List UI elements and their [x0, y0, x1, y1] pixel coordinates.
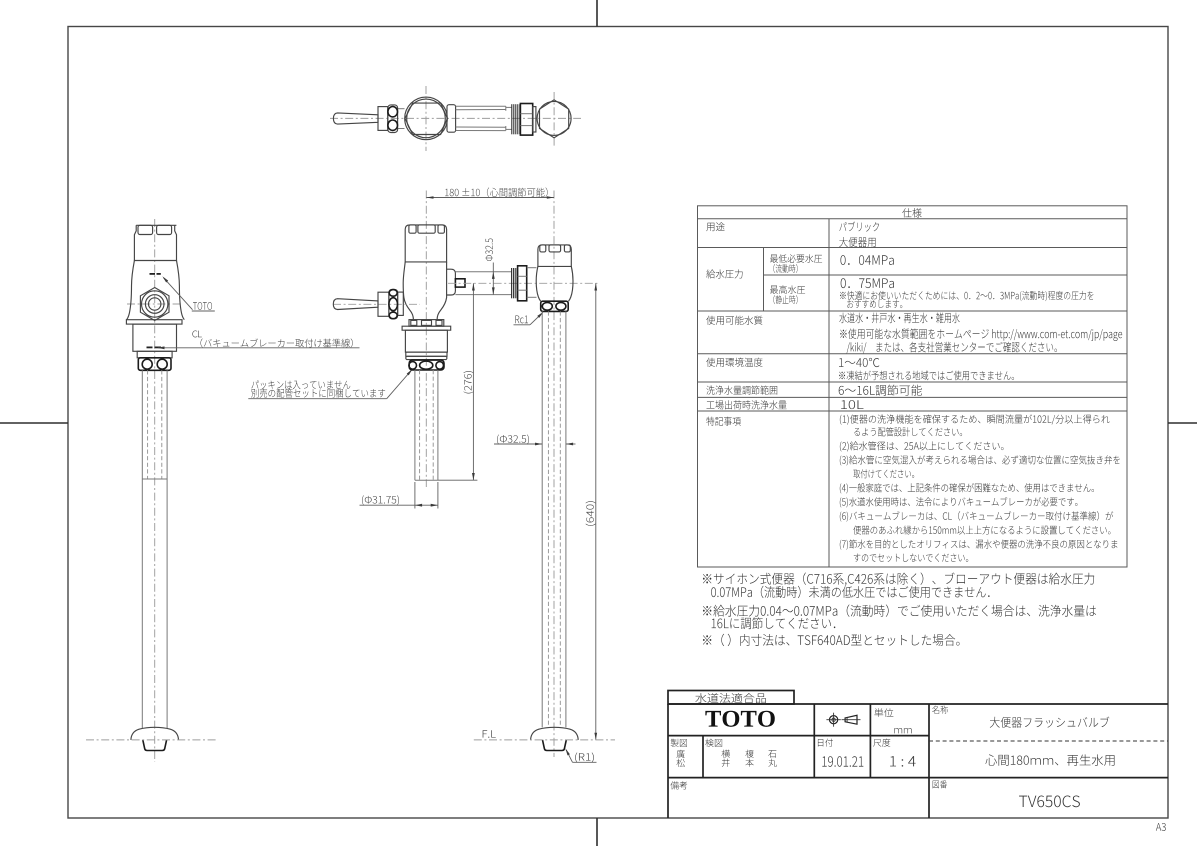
top view: union nut — [520, 104, 532, 136]
table label 洗浄水量調節範囲 — [706, 386, 777, 395]
table value 水質 — [839, 313, 959, 324]
left view: port circle outer — [142, 291, 168, 317]
middle view: inlet body — [536, 266, 573, 301]
top view: inlet hex — [540, 100, 569, 138]
middle view: vb bottom band — [406, 352, 447, 356]
dimension (640) line — [595, 283, 597, 740]
title block: row line 1 left — [668, 735, 929, 737]
left view: base spigot below floor — [143, 740, 167, 751]
centering tick bottom — [596, 818, 598, 846]
table value 大便器用 — [839, 237, 875, 247]
label vacuum breaker reference line — [200, 338, 352, 347]
middle view: wide flange — [402, 326, 451, 330]
sheet size A3 — [1156, 823, 1166, 831]
dimension (φ31.75) line — [360, 504, 438, 506]
dimension (φ32.5)2 text — [497, 435, 529, 445]
left view: pipe hidden line right — [161, 370, 163, 479]
table value 0.04MPa — [840, 255, 893, 265]
table value 水量範囲 — [839, 385, 922, 396]
top view: union collar — [533, 107, 536, 132]
middle view: vacuum breaker body — [405, 330, 447, 352]
spec note line 6 — [840, 483, 1094, 493]
spec note line 8 — [840, 511, 1113, 522]
spec note line 7 — [840, 497, 1078, 507]
middle view: outlet pipe centerline — [448, 282, 600, 284]
spec table: subrow line — [764, 274, 1128, 276]
left view: CL leader arrow — [157, 346, 164, 349]
title block: date — [822, 756, 863, 767]
dimension (φ31.75) arrows — [415, 504, 422, 507]
middle view: union nut — [409, 360, 444, 370]
middle view: outlet pipe top line — [455, 271, 511, 273]
spec table: outer frame — [698, 206, 1128, 567]
left view: cap segment left — [138, 225, 153, 234]
middle view: tail pipe wall right — [437, 370, 439, 480]
middle view: pivot-body plate — [398, 292, 404, 315]
dimension (276) line — [472, 283, 474, 480]
top view: inlet fitting circle — [537, 101, 571, 135]
title block: row line 2 — [668, 777, 1168, 779]
table label 使用可能水質 — [706, 316, 762, 325]
title block: drawing number — [1019, 796, 1080, 808]
middle view: tail pipe wall left — [414, 370, 416, 480]
label (R1) underline+leader — [573, 761, 597, 763]
table label 給水圧力 — [706, 269, 742, 278]
spec note line 5 — [853, 469, 914, 478]
projection symbol cone — [845, 715, 857, 724]
top view: union thread — [511, 104, 513, 134]
title block: approval tab text — [695, 693, 766, 703]
middle view: inlet bottom nut — [541, 301, 569, 311]
dimension (276) extension — [438, 479, 478, 481]
table label 用途 — [706, 222, 724, 231]
middle view: pivot ellipse mid — [389, 298, 398, 311]
title block: value mm — [894, 728, 911, 733]
middle view: adjuster screw box — [455, 279, 465, 287]
table label 使用環境温度 — [706, 358, 762, 367]
note packing line1 — [251, 381, 350, 390]
spec note line 3 — [840, 441, 1004, 451]
middle view: union nut (pipe) — [518, 266, 527, 301]
middle view: spud tabs — [411, 320, 417, 325]
projection symbol circle — [830, 716, 838, 724]
middle view: base flange — [531, 727, 579, 740]
title block: label 単位 — [874, 708, 893, 717]
left view: port horizontal centerline — [127, 303, 181, 305]
top view: outlet pipe top lines — [456, 105, 506, 107]
spec table: column line main — [828, 219, 830, 567]
title block: label 検図 — [705, 739, 722, 747]
spec note line 2 — [854, 427, 962, 436]
title block: col name left — [928, 704, 930, 818]
dimension φ32.5 text — [485, 239, 493, 262]
middle view: collar lines — [527, 267, 537, 269]
left view: union nut — [138, 358, 171, 371]
top view: lever bracket — [378, 107, 388, 131]
footnote 1 line2 — [711, 586, 989, 598]
label Rc1 — [515, 316, 528, 324]
middle view: inlet nut circle right — [556, 302, 566, 310]
middle view: union facet lines — [518, 275, 527, 277]
left view: TOTO engraving mark — [150, 273, 156, 275]
middle view: valve body — [403, 262, 446, 320]
dimension φ32.5 arrows — [492, 272, 495, 279]
table label 最低必要水圧 — [770, 254, 822, 263]
left view: step ring — [137, 351, 172, 358]
middle view: vb lower ring — [406, 356, 447, 359]
middle view: inlet cap notches — [540, 245, 546, 252]
middle view: tail pipe hidden right — [432, 370, 434, 480]
left view: floor line — [86, 739, 216, 741]
top view: pivot block — [388, 105, 398, 133]
top view: valve hex — [405, 103, 447, 134]
left view: TOTO leader line — [164, 278, 193, 310]
left view: union nut circle right — [157, 359, 167, 369]
dimension (276) text — [464, 371, 474, 393]
centering tick right — [1168, 422, 1197, 424]
top view: valve body inner circle — [407, 99, 446, 138]
table header 仕様 — [902, 208, 921, 218]
left view: vertical centerline — [154, 219, 156, 762]
middle view: floor line — [474, 739, 615, 741]
label F.L — [483, 730, 496, 737]
spec note line 1 — [840, 414, 1110, 424]
middle view: pivot column — [389, 289, 398, 318]
left view: flange — [126, 320, 182, 324]
dimension (φ32.5)2 line — [494, 443, 542, 445]
top view: handle lever — [333, 113, 378, 124]
left view: port hex — [140, 288, 169, 321]
left view: supply pipe wall right — [166, 370, 168, 728]
dimension (φ31.75) ext left — [414, 482, 416, 509]
left view: cap body — [134, 225, 176, 260]
table label 工場出荷時洗浄水量 — [706, 400, 786, 409]
middle view: cap notches — [409, 225, 416, 233]
top view: valve body outer circle — [405, 97, 448, 140]
spec table: row lines — [698, 218, 1128, 220]
title block: label 製図 — [671, 739, 687, 747]
left view: cap top edge — [136, 224, 176, 226]
label (R1) — [575, 753, 594, 763]
dimension 180±10 arrows — [426, 196, 433, 199]
middle view: tail pipe hidden left — [419, 370, 421, 480]
title block: approval tab box — [668, 691, 794, 705]
title block: col seizu right — [702, 736, 704, 778]
middle view: supply pipe wall left — [541, 311, 543, 727]
dimension 180±10 line — [426, 197, 554, 199]
middle view: outlet boss — [447, 269, 456, 295]
middle view: inlet cap — [538, 245, 571, 267]
left view: CL leader line — [158, 347, 360, 349]
note packing line2 — [251, 389, 385, 398]
middle view: union nut circle right — [436, 362, 444, 370]
middle view: lever bracket — [378, 292, 389, 316]
top view: valve vertical centerline — [425, 86, 427, 151]
left view: CL mark — [147, 346, 153, 348]
left view: cap segment right — [157, 225, 172, 234]
title block: product name — [990, 717, 1110, 728]
middle view: supply pipe hidden right — [559, 311, 561, 727]
middle view: pivot ellipse bottom — [389, 312, 397, 319]
table note 凍結 — [839, 371, 1014, 381]
spec table: column line sub — [763, 248, 765, 312]
table value 10L — [841, 400, 863, 409]
left view: union nut circle left — [142, 359, 152, 369]
top view: horizontal centerline — [330, 117, 581, 119]
label Rc1 underline+leader — [514, 324, 531, 326]
middle view: pivot ellipse top — [389, 290, 397, 297]
table label 特記事項 — [706, 417, 740, 426]
title block: name 石丸 — [768, 750, 776, 757]
table value パブリック — [839, 222, 879, 232]
middle view: spud band — [409, 320, 444, 327]
middle view: tail pipe end line — [415, 479, 438, 481]
middle view: supply pipe wall right — [565, 311, 567, 727]
spec note line 9 — [853, 525, 1110, 534]
spec note line 4 — [840, 455, 1120, 465]
dimension (276) arrows — [472, 283, 475, 290]
left view: base flange — [131, 727, 179, 740]
title block: label 尺度 — [873, 738, 890, 746]
title block: TOTO logo — [705, 711, 774, 727]
dimension 180±10 text — [445, 188, 548, 198]
label TOTO — [193, 302, 212, 310]
title block: name 横井 — [721, 750, 729, 758]
middle view: handle lever — [333, 299, 378, 310]
left view: tailpiece end joint line — [142, 478, 167, 480]
title block: dashed name divider — [929, 740, 1168, 742]
table note 水質3 — [847, 342, 1057, 354]
title block: top line — [668, 703, 1168, 705]
footnote 1 line1 — [703, 572, 1094, 585]
table note 快適2 — [847, 300, 902, 308]
note packing underline+leader — [248, 398, 386, 400]
top view: inlet vertical centerline — [553, 92, 555, 146]
footnote 2 line2 — [712, 617, 836, 629]
top view: pivot nut upper — [388, 107, 398, 117]
middle view: handle centerline — [333, 303, 420, 305]
middle view: inlet vertical centerline — [553, 191, 555, 758]
middle view: union nut ellipse mid — [420, 361, 433, 369]
dimension (640) text — [586, 501, 596, 526]
title block: name 廣松 — [677, 750, 685, 758]
table label (静止時) — [773, 295, 797, 304]
footnote 2 line1 — [703, 604, 1096, 616]
top view: pivot neck lines — [398, 108, 405, 110]
table note 快適 — [840, 291, 1093, 301]
title block: scale — [890, 756, 916, 766]
left view: pipe hidden line left — [147, 370, 149, 479]
title block: col TOTO right — [813, 704, 815, 778]
note packing arrow — [407, 369, 413, 375]
dimension φ32.5 vertical line — [492, 263, 494, 295]
middle view: supply pipe hidden left — [547, 311, 549, 727]
middle view: outlet pipe bottom line — [455, 294, 511, 296]
title block: label 備考 — [670, 781, 687, 789]
table value 温度 — [839, 358, 879, 367]
label CL — [192, 331, 201, 338]
centering tick left — [0, 422, 68, 424]
dimension (φ31.75) ext right — [437, 482, 439, 509]
left view: vacuum breaker body — [133, 324, 177, 351]
label (R1) arrow — [565, 748, 570, 755]
dimension (φ32.5)2 arrows — [535, 443, 542, 446]
middle view: inlet nut circle left — [542, 302, 552, 310]
title block: label 名称 — [932, 706, 948, 714]
top view: outlet pipe bottom lines — [456, 130, 506, 132]
footnote 3 — [703, 634, 960, 646]
dimension (640) arrows — [594, 283, 597, 290]
left view: valve body — [127, 261, 185, 320]
top view: union nut facet lines — [520, 113, 532, 115]
left view: port circle mid — [145, 295, 164, 314]
left view: port circle inner — [149, 298, 161, 310]
middle view: union nut circle left — [409, 362, 417, 370]
title block: spec name — [985, 754, 1114, 765]
table value 0.75MPa — [841, 278, 894, 288]
dimension (φ31.75) text — [362, 495, 399, 505]
centering tick top — [596, 0, 598, 27]
middle view: valve cap — [405, 225, 446, 262]
left view: supply pipe wall left — [141, 370, 143, 728]
table label 最高水圧 — [770, 285, 805, 294]
table label (流動時) — [773, 264, 797, 273]
middle view: base spigot below floor — [543, 740, 567, 751]
top view: pivot nut lower — [388, 120, 398, 130]
table note 水質2 — [840, 328, 1122, 341]
top view: pipe step ticks — [505, 106, 507, 111]
label Rc1 arrow — [537, 312, 543, 318]
title block: col proj right — [869, 704, 871, 778]
title block: label 図番 — [933, 780, 947, 788]
top view: outlet collar — [447, 105, 456, 133]
title block: name 榎本 — [745, 750, 753, 758]
middle view: valve vertical centerline — [425, 191, 427, 488]
title block: label 日付 — [818, 739, 833, 747]
spec note line 10 — [840, 539, 1118, 549]
middle view: union thread — [511, 268, 513, 298]
spec note line 11 — [854, 553, 968, 562]
left view: TOTO leader arrow — [162, 276, 168, 282]
title block: left line — [667, 704, 669, 818]
